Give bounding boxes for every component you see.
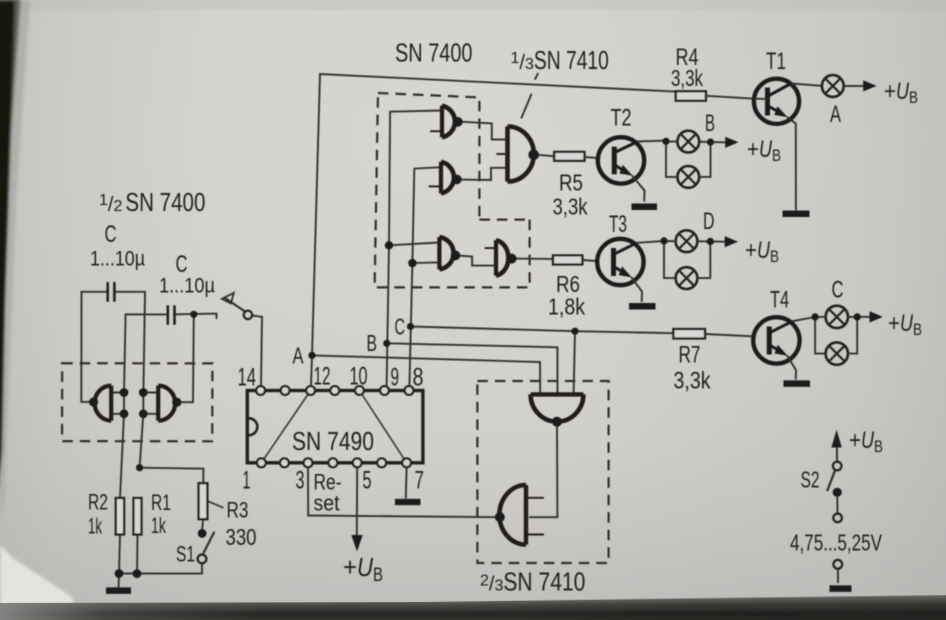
svg-text:10: 10 <box>350 363 368 391</box>
svg-text:3,3k: 3,3k <box>553 194 588 220</box>
svg-text:R5: R5 <box>559 170 583 196</box>
svg-text:A: A <box>830 101 841 128</box>
svg-text:T2: T2 <box>611 105 632 132</box>
svg-text:9: 9 <box>391 364 400 392</box>
svg-text:4,75...5,25V: 4,75...5,25V <box>790 530 882 556</box>
svg-text:12: 12 <box>314 363 331 391</box>
svg-text:R3: R3 <box>227 498 249 523</box>
svg-text:3,3k: 3,3k <box>671 65 703 91</box>
svg-text:14: 14 <box>238 364 257 392</box>
svg-text:8: 8 <box>413 364 424 392</box>
svg-text:S2: S2 <box>801 467 820 493</box>
svg-text:T3: T3 <box>609 211 627 238</box>
svg-text:7: 7 <box>415 467 425 495</box>
svg-text:R1: R1 <box>151 490 171 515</box>
svg-text:330: 330 <box>226 524 257 550</box>
svg-text:A: A <box>293 343 304 369</box>
svg-text:3,3k: 3,3k <box>674 368 712 395</box>
svg-text:5: 5 <box>363 467 372 495</box>
svg-text:1k: 1k <box>151 513 167 538</box>
svg-text:S1: S1 <box>176 542 195 567</box>
svg-text:1...10µ: 1...10µ <box>90 248 145 271</box>
svg-text:C: C <box>832 277 844 304</box>
svg-text:1k: 1k <box>88 514 103 539</box>
svg-text:set: set <box>314 491 340 516</box>
svg-text:T1: T1 <box>766 48 786 75</box>
svg-text:B: B <box>705 110 715 137</box>
svg-text:D: D <box>703 208 715 235</box>
svg-text:R7: R7 <box>679 342 701 369</box>
svg-text:B: B <box>367 330 378 356</box>
svg-text:1,8k: 1,8k <box>548 294 585 320</box>
svg-text:R2: R2 <box>88 490 108 515</box>
svg-text:SN 7490: SN 7490 <box>292 426 374 456</box>
svg-text:SN 7400: SN 7400 <box>395 38 473 68</box>
svg-text:C: C <box>105 221 117 248</box>
svg-text:1: 1 <box>243 467 251 495</box>
svg-text:1...10µ: 1...10µ <box>159 275 215 298</box>
svg-text:C: C <box>395 314 406 340</box>
svg-text:T4: T4 <box>770 287 789 314</box>
svg-text:3: 3 <box>296 467 305 495</box>
